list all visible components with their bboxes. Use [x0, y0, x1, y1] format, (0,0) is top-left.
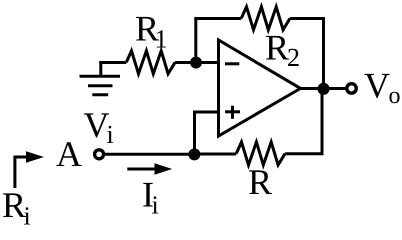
- label Vo: [364, 74, 399, 103]
- op-amp non-inverting pin marker: [225, 106, 240, 119]
- label R1: [136, 17, 166, 48]
- wire top feedback right segment: [290, 19, 324, 89]
- junction node 3: [188, 148, 200, 160]
- wire node 3 to R: [194, 153, 236, 156]
- label Ri: [3, 193, 30, 224]
- ground: [80, 61, 121, 95]
- wire node 1 riser to feedback top: [194, 19, 197, 63]
- wire top feedback left segment: [196, 19, 242, 21]
- wire op-amp output: [300, 87, 346, 90]
- terminal Vi: [95, 150, 104, 159]
- label Ii: [143, 183, 158, 214]
- arrow Ii (input current): [127, 163, 172, 175]
- label R2: [266, 36, 299, 66]
- junction node 2: [317, 83, 329, 95]
- wire ground to R1: [99, 61, 126, 64]
- wire right riser to bottom: [321, 89, 324, 154]
- wire Vi to node 3: [104, 153, 195, 156]
- resistor R2: [241, 7, 290, 30]
- resistor R: [236, 142, 285, 165]
- resistor R1: [126, 51, 175, 74]
- label Vi: [84, 113, 113, 143]
- op-amp inverting pin marker: [225, 62, 239, 65]
- wire R to right riser: [285, 152, 323, 155]
- wire non-inverting input: [195, 112, 219, 154]
- node A label: [56, 142, 81, 166]
- op-amp U1: [219, 40, 301, 136]
- arrow Ri (input resistance): [15, 151, 44, 188]
- terminal Vo: [347, 84, 357, 94]
- junction node 1: [190, 57, 202, 69]
- label R: [249, 170, 272, 194]
- wire R1 to inverting input: [175, 61, 218, 64]
